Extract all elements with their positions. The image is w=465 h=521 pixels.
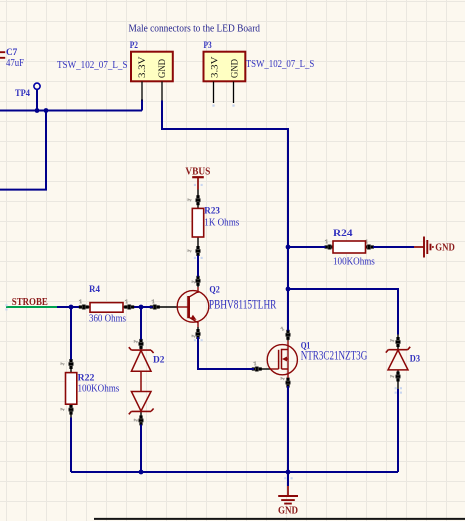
wire trunk to D3: [288, 289, 398, 335]
wire D2 bottom: [140, 425, 142, 473]
svg-text:R22: R22: [78, 373, 95, 384]
wire R22 to bottom rail: [70, 418, 72, 473]
wire bottom rail: [71, 471, 398, 473]
node junction at TP4 stem: [35, 108, 40, 113]
svg-text:PBHV8115TLHR: PBHV8115TLHR: [209, 298, 277, 312]
sheet border edge: [94, 518, 465, 520]
wire STROBE to R4: [57, 306, 79, 308]
resistor R24: [325, 228, 375, 267]
wire 3.3V rail y=110: [0, 110, 142, 112]
wire left branch horizontal: [0, 189, 47, 191]
wire STROBE (green): [6, 306, 57, 308]
svg-text:P3: P3: [204, 40, 213, 50]
resistor R23: [187, 190, 240, 257]
svg-text:3.3V: 3.3V: [138, 56, 148, 78]
svg-text:GND: GND: [278, 506, 298, 517]
svg-text:360 Ohms: 360 Ohms: [89, 314, 126, 325]
wire Q1 source to bottom rail: [287, 386, 289, 472]
node junction trunk-R24: [286, 245, 291, 250]
node junction trunk-D3: [286, 287, 291, 292]
node junction D2-bottom rail: [139, 470, 144, 475]
svg-text:VBUS: VBUS: [185, 167, 210, 178]
diode D3: [386, 334, 420, 390]
wire trunk to R24: [288, 246, 326, 248]
connector P2: [130, 40, 173, 100]
wire Q2 emitter to Q1 gate: [198, 337, 254, 369]
transistor Q2: [150, 276, 277, 339]
diode D2 (TVS): [129, 339, 165, 426]
svg-text:R4: R4: [89, 284, 100, 295]
wire D3 to bottom rail: [397, 389, 399, 472]
transistor Q1: [252, 330, 368, 388]
capacitor C7: [0, 47, 24, 69]
grip dots (editor hotspots): [5, 184, 402, 479]
svg-text:TP4: TP4: [15, 88, 30, 99]
svg-text:TSW_102_07_L_S: TSW_102_07_L_S: [246, 59, 314, 70]
svg-text:C7: C7: [6, 47, 17, 58]
svg-text:100KOhms: 100KOhms: [78, 384, 120, 395]
node junction at left branch: [44, 108, 49, 113]
svg-text:NTR3C21NZT3G: NTR3C21NZT3G: [301, 349, 368, 363]
svg-text:47uF: 47uF: [6, 58, 24, 69]
svg-text:D3: D3: [410, 354, 420, 365]
svg-text:R23: R23: [204, 206, 220, 217]
svg-text:Male connectors to the LED Boa: Male connectors to the LED Board: [129, 24, 261, 35]
wire left branch vertical: [45, 111, 47, 190]
tiny pin numbers: [191, 280, 196, 284]
svg-text:R24: R24: [333, 228, 353, 239]
svg-text:GND: GND: [158, 59, 168, 78]
test point TP4: [15, 83, 40, 110]
wire P2 pin1 drop: [141, 100, 143, 111]
svg-text:3.3V: 3.3V: [211, 56, 221, 78]
power VBUS: [185, 167, 210, 190]
svg-text:Q2: Q2: [209, 285, 219, 296]
wire R23 to Q2 collector: [197, 256, 199, 278]
wire R24 to GND: [373, 246, 414, 248]
node junction R22 branch: [69, 305, 74, 310]
svg-text:D2: D2: [153, 355, 165, 366]
wire D2 top: [140, 307, 142, 340]
resistor R22: [60, 359, 120, 418]
ground GND (right): [414, 237, 455, 258]
node junction GND stem: [286, 470, 291, 475]
svg-text:TSW_102_07_L_S: TSW_102_07_L_S: [57, 60, 128, 71]
svg-text:P2: P2: [130, 40, 139, 50]
wire R4 to Q2 base: [134, 306, 153, 308]
svg-text:100KOhms: 100KOhms: [333, 256, 375, 267]
connector P3: [204, 40, 246, 107]
resistor R4: [79, 284, 134, 325]
wire P2 GND to trunk: [162, 101, 288, 332]
svg-text:1K Ohms: 1K Ohms: [204, 218, 239, 229]
svg-text:GND: GND: [435, 243, 455, 254]
wire junction to R22: [70, 307, 72, 360]
svg-text:GND: GND: [230, 59, 240, 78]
node junction D2 branch: [139, 305, 144, 310]
ground GND (bottom): [278, 472, 298, 517]
